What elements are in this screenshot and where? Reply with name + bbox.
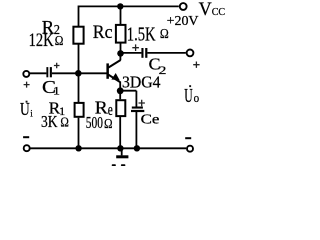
svg-text:1: 1 bbox=[53, 84, 60, 97]
svg-text:o: o bbox=[194, 91, 199, 105]
svg-text:+20V: +20V bbox=[167, 13, 199, 28]
svg-text:Ce: Ce bbox=[141, 111, 160, 126]
svg-text:V: V bbox=[199, 0, 212, 20]
svg-text:1.5K: 1.5K bbox=[127, 23, 156, 45]
svg-text:Ω: Ω bbox=[104, 116, 113, 131]
svg-text:500: 500 bbox=[86, 113, 103, 132]
svg-text:12K: 12K bbox=[29, 30, 54, 51]
svg-text:Ω: Ω bbox=[55, 33, 64, 48]
svg-text:3DG4: 3DG4 bbox=[122, 73, 161, 92]
svg-text:U: U bbox=[184, 86, 192, 107]
svg-text:Ω: Ω bbox=[60, 114, 68, 129]
svg-text:Rc: Rc bbox=[93, 22, 113, 43]
svg-text:CC: CC bbox=[212, 7, 226, 18]
svg-text:3K: 3K bbox=[41, 112, 58, 131]
svg-text:U: U bbox=[20, 99, 30, 119]
svg-text:i: i bbox=[30, 109, 33, 119]
svg-text:2: 2 bbox=[159, 63, 167, 77]
svg-text:Ω: Ω bbox=[160, 26, 169, 41]
